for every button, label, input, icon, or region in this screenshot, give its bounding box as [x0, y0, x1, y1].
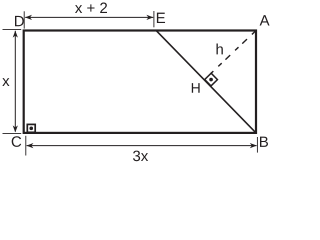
label C: [12, 136, 22, 147]
dashed height AH: [211, 31, 255, 73]
top dimension x+2 : extension tick at D: [23, 11, 25, 28]
segment EB: [156, 31, 256, 133]
right-angle marker at H: [205, 73, 218, 86]
label B: [260, 137, 268, 147]
label E: [157, 13, 165, 23]
top dimension x+2 : extension tick at E: [153, 11, 155, 27]
top dimension x+2 : right arrowhead: [146, 15, 153, 20]
label x + 2 (top): [75, 3, 107, 13]
right-angle marker at C: [27, 124, 35, 132]
label 3x (bottom): [133, 151, 148, 162]
bottom dimension 3x : dimension line: [27, 145, 257, 147]
label h: [217, 44, 223, 55]
top dimension x+2 : dimension line: [25, 16, 153, 18]
left dimension x : top arrowhead: [13, 31, 18, 38]
bottom dimension 3x : left arrowhead: [26, 143, 33, 148]
label D: [15, 16, 24, 26]
bottom dimension 3x : right arrowhead: [250, 143, 257, 148]
bottom dimension 3x : extension tick at C: [25, 136, 27, 156]
left dimension x : dimension line: [14, 31, 16, 132]
left dimension x : bottom arrowhead: [13, 125, 18, 132]
label A: [260, 15, 270, 25]
label x (left): [2, 78, 9, 86]
left dimension x : extension tick top: [3, 29, 22, 31]
label H: [192, 83, 200, 93]
top dimension x+2 : left arrowhead: [25, 15, 32, 20]
left dimension x : extension tick bottom: [3, 132, 22, 134]
bottom dimension 3x : extension tick at B: [256, 137, 258, 153]
rectangle ABCD: [24, 31, 256, 133]
